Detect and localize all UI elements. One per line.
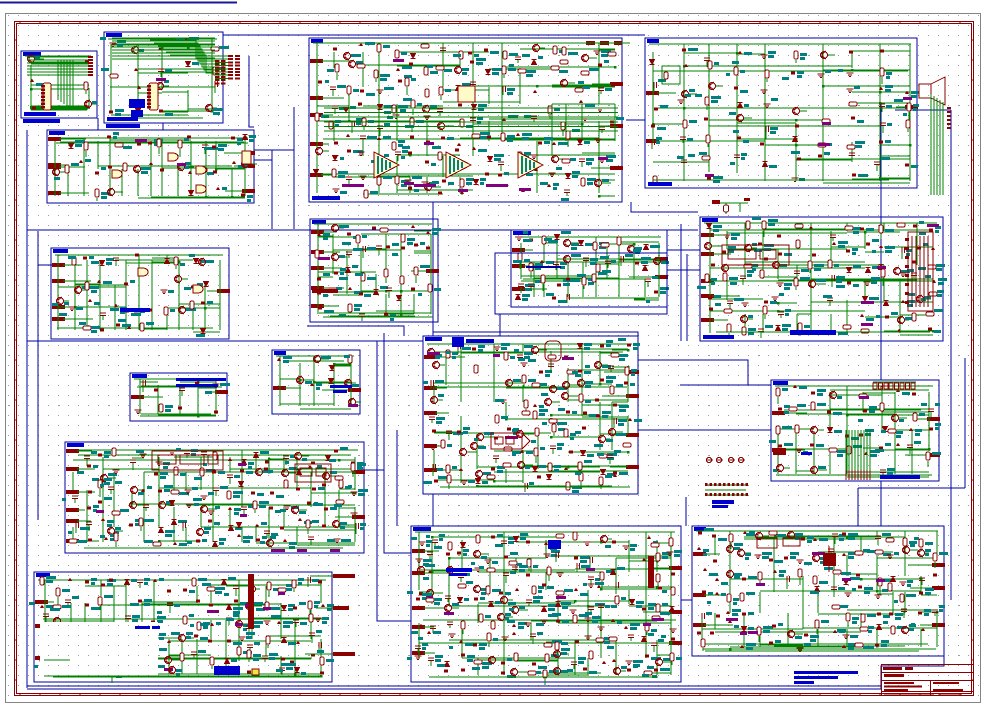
wire	[883, 279, 885, 300]
wire	[729, 304, 731, 309]
wire	[916, 249, 918, 265]
capacitor C9_20	[621, 256, 624, 262]
value ref 5_6	[154, 139, 163, 142]
port wire	[435, 356, 465, 358]
wire	[612, 404, 628, 406]
value ref 6_43	[711, 278, 717, 281]
label ref 7_26	[170, 309, 175, 312]
port P12R0	[626, 370, 639, 374]
label val 4_25	[894, 99, 903, 102]
diode D12_11	[578, 344, 583, 349]
wire	[658, 262, 660, 297]
capacitor C3_49	[503, 86, 506, 92]
pad E3_92	[441, 137, 445, 140]
label val 6_14	[919, 232, 926, 235]
value ref 3_131	[466, 178, 474, 181]
label val 10_5	[205, 391, 212, 394]
label ref 6_68	[715, 303, 721, 306]
wire	[67, 169, 69, 196]
wire	[822, 159, 824, 181]
IC U3	[458, 86, 475, 102]
wire	[520, 48, 615, 50]
resistor R5_29	[95, 189, 99, 197]
transistor Q8_2	[332, 224, 339, 232]
wire	[151, 285, 153, 330]
wire	[400, 234, 402, 274]
text B6 caption	[703, 335, 734, 339]
label val 4_54	[677, 156, 684, 159]
label ref 4_15	[825, 70, 831, 73]
label ref 3_46	[445, 89, 451, 92]
wire	[778, 331, 847, 333]
wire	[742, 279, 744, 285]
bus net 15	[895, 109, 951, 111]
top blue line	[0, 2, 237, 4]
pad E4_62	[905, 164, 909, 167]
label val 2_4	[176, 38, 185, 41]
power V+	[97, 280, 101, 284]
wire	[375, 79, 377, 82]
label ref 3_5	[401, 52, 407, 55]
port P31	[310, 96, 323, 100]
pad E3_38	[318, 81, 322, 84]
rail wire	[31, 109, 82, 111]
wire	[884, 331, 917, 333]
junction	[777, 310, 779, 312]
value ref 6_4	[768, 219, 778, 222]
label ref 9_12	[524, 259, 530, 262]
port wire	[712, 319, 728, 321]
label ref 7_27	[186, 308, 196, 311]
net net	[156, 78, 166, 81]
wire	[568, 451, 628, 453]
wire	[829, 301, 831, 306]
wire	[765, 144, 823, 146]
diode D3_101	[578, 140, 583, 145]
port P40	[646, 91, 659, 95]
wire	[551, 104, 553, 121]
capacitor C6_34	[794, 271, 800, 274]
wire	[357, 244, 359, 251]
resistor R7_34	[140, 323, 144, 331]
wire	[712, 245, 722, 247]
wire	[30, 65, 32, 88]
wire	[187, 90, 189, 112]
wire	[540, 47, 545, 49]
pad E9_28	[566, 278, 570, 281]
wire	[162, 111, 188, 113]
power V+	[188, 171, 192, 175]
ground GND	[847, 89, 854, 93]
label ref 3_21	[356, 61, 363, 64]
wire	[489, 68, 552, 70]
value ref 6_25	[885, 246, 895, 249]
pad E12_18	[539, 371, 543, 374]
resistor R3_123	[332, 169, 336, 177]
wire	[177, 169, 179, 196]
wire	[517, 60, 519, 63]
value ref 8_36	[354, 304, 362, 307]
wire	[728, 333, 730, 338]
transistor Q6_15	[705, 242, 712, 250]
wire	[83, 141, 85, 169]
label ref 6_17	[752, 243, 757, 246]
wire	[880, 177, 910, 179]
wire	[409, 177, 411, 193]
label val 3_39	[325, 80, 329, 83]
value ref 4_64	[713, 176, 723, 179]
wire	[363, 127, 365, 130]
label ref 4_51	[826, 143, 832, 146]
rail wire	[286, 360, 344, 362]
value ref 6_72	[785, 309, 791, 312]
wire	[348, 255, 350, 258]
wire	[762, 231, 764, 249]
wire	[797, 313, 811, 315]
wire	[744, 314, 746, 333]
value ref 6_45	[747, 270, 754, 273]
wire	[909, 123, 911, 142]
wire	[161, 141, 163, 196]
pad E4_7	[849, 51, 853, 54]
port P80	[311, 230, 324, 234]
capacitor C8_31	[386, 288, 392, 291]
wire	[166, 255, 168, 260]
wire	[138, 260, 140, 307]
wire	[190, 169, 192, 196]
port wire	[657, 92, 676, 94]
wire	[880, 144, 910, 146]
wire	[98, 165, 232, 167]
wire	[115, 191, 123, 193]
wire	[658, 243, 660, 262]
wire	[82, 289, 88, 291]
transistor Q2_2	[132, 46, 139, 54]
wire	[138, 46, 212, 48]
power V+	[809, 226, 813, 230]
wire	[152, 257, 179, 259]
wire	[460, 344, 462, 402]
label ref 4_66	[858, 174, 868, 177]
wire	[375, 274, 377, 294]
value ref 6_79	[748, 328, 756, 331]
wire	[316, 52, 318, 68]
value ref 3_18	[601, 50, 611, 53]
pad E9_2	[529, 239, 533, 242]
B3 outside ports	[586, 41, 622, 45]
wire	[501, 87, 503, 104]
wire	[501, 43, 503, 121]
wire	[581, 104, 583, 121]
wire	[612, 366, 628, 368]
label ref 3_58	[384, 105, 392, 108]
capacitor C6_50	[832, 275, 835, 281]
bus net 12	[432, 202, 434, 336]
capacitor C4_46	[680, 137, 686, 140]
label val 3_136	[526, 173, 533, 176]
wire	[502, 92, 504, 95]
B2 wire bundle	[112, 38, 215, 59]
wire	[522, 385, 524, 402]
label ref 3_126	[383, 176, 392, 179]
junction	[348, 120, 350, 122]
ground GND	[531, 155, 538, 159]
label ref 7_8	[200, 260, 209, 263]
bus net 30	[681, 599, 692, 601]
label val 7_30	[79, 322, 86, 325]
wire	[595, 243, 597, 279]
wire	[401, 312, 431, 314]
transistor Q12_15	[433, 361, 440, 369]
wire	[522, 450, 524, 483]
value ref 6_42	[936, 264, 945, 267]
wire	[83, 138, 85, 169]
wire	[599, 49, 615, 51]
resistor R3_131	[460, 179, 464, 187]
label ref 6_19	[784, 253, 792, 256]
wire	[216, 168, 245, 170]
wire	[190, 141, 192, 169]
wire	[473, 123, 582, 125]
bus net 7	[37, 231, 39, 520]
resistor R9_12	[518, 253, 522, 261]
label ref 4_36	[689, 120, 697, 123]
resistor R4_63	[653, 176, 657, 184]
label ref 4_48	[743, 140, 749, 143]
diode D9_6	[579, 241, 584, 246]
wire	[550, 367, 552, 373]
pad E3_54	[611, 84, 615, 87]
value ref 8_7	[407, 238, 415, 241]
label ref 3_13	[522, 54, 530, 57]
wire	[519, 262, 521, 269]
pad E10_2	[154, 389, 158, 392]
connector J2	[149, 83, 158, 110]
wire	[519, 161, 521, 168]
wire	[332, 90, 334, 96]
wire	[865, 251, 884, 253]
label ref 3_99	[558, 142, 568, 145]
port P3R0	[610, 82, 623, 86]
resistor R6_82	[798, 323, 802, 331]
wire	[362, 139, 364, 145]
wire	[777, 265, 779, 279]
wire	[92, 103, 97, 105]
port P73	[52, 317, 65, 321]
wire	[602, 364, 608, 366]
pad E7_23	[125, 310, 129, 313]
wire	[110, 139, 191, 141]
port P84	[311, 304, 324, 308]
wire	[244, 141, 246, 196]
ground GND	[772, 297, 779, 301]
wire	[599, 351, 601, 385]
label ref 9_33	[558, 300, 567, 303]
transistor Q4_38	[737, 114, 744, 122]
resistor R3_89	[392, 142, 396, 150]
wire	[823, 85, 910, 87]
pad E6_74	[885, 316, 889, 319]
resistor R8_6	[380, 228, 388, 232]
junction	[197, 415, 199, 417]
J3 wires	[215, 56, 228, 78]
label ref 3_44	[411, 78, 416, 81]
port wire	[712, 234, 729, 236]
resistor R6_53	[881, 269, 885, 277]
pad E3_1	[333, 48, 337, 51]
net net	[818, 143, 830, 146]
value ref 4_25	[911, 91, 919, 94]
pad E8_26	[317, 292, 321, 295]
wire	[653, 123, 684, 125]
value ref 9_13	[535, 263, 543, 266]
B4 top rail	[649, 43, 911, 45]
port wire	[612, 434, 626, 436]
label ref 7_34	[146, 322, 154, 325]
wire	[31, 61, 89, 63]
label ref 12_17	[528, 359, 536, 362]
label val 6_25	[872, 250, 876, 253]
diode D6_64	[884, 301, 889, 306]
wire	[599, 179, 615, 181]
label ref 3_55	[339, 107, 346, 110]
pad E6_68	[709, 308, 713, 311]
wire	[551, 121, 553, 156]
wire	[74, 260, 76, 285]
resistor R7_28	[190, 301, 194, 309]
wire	[162, 110, 212, 112]
port wire	[59, 192, 89, 194]
label val 8_16	[392, 253, 398, 256]
resistor R9_8	[601, 243, 609, 247]
wire	[851, 142, 853, 159]
label ref 3_4	[383, 45, 390, 48]
rail wire	[63, 327, 213, 329]
port wire	[234, 165, 242, 167]
transistor Q3_103	[316, 147, 323, 155]
wire	[633, 262, 635, 279]
wire	[476, 434, 478, 450]
transistor Q5_28	[242, 160, 249, 168]
B11 top rail	[276, 355, 354, 357]
wire	[54, 141, 56, 196]
label val 3_107	[371, 160, 376, 163]
wire	[568, 451, 612, 453]
right maroon pads	[947, 107, 951, 129]
pad E3_43	[398, 80, 402, 83]
pad E2_16	[159, 110, 163, 113]
capacitor C6_8	[830, 235, 836, 238]
wire	[361, 317, 363, 321]
wire	[880, 91, 910, 93]
capacitor C8_37	[359, 314, 365, 317]
value ref 4_24	[885, 85, 893, 88]
wire	[653, 88, 655, 92]
diode D5_13	[243, 135, 248, 140]
B2 logo	[129, 99, 145, 108]
bus net 9	[38, 264, 52, 266]
pad E8_15	[386, 246, 390, 249]
bus net 26	[377, 341, 384, 621]
wire	[215, 141, 217, 169]
long wire	[736, 44, 738, 173]
wire	[551, 418, 628, 420]
junction	[851, 69, 853, 71]
wire	[333, 363, 335, 382]
label ref 7_9	[206, 260, 214, 263]
wire	[582, 279, 584, 297]
wire	[764, 44, 766, 105]
wire	[279, 356, 281, 363]
wire	[115, 259, 193, 261]
block B3 boundary	[309, 38, 622, 202]
wire	[551, 121, 553, 156]
wire	[652, 89, 654, 142]
wire	[581, 104, 583, 121]
wire	[332, 234, 334, 274]
label ref 6_82	[804, 325, 810, 328]
junction	[736, 52, 738, 54]
port wire	[284, 387, 301, 389]
resistor R12_28	[532, 383, 540, 387]
pad E3_110	[425, 161, 429, 164]
capacitor C9_24	[518, 284, 524, 287]
label ref 11_8	[352, 384, 359, 387]
wire	[583, 286, 585, 289]
wire	[494, 471, 600, 473]
value ref 7_30	[91, 326, 100, 329]
resistor R6_44	[723, 273, 727, 281]
label ref 12_21	[584, 371, 591, 374]
block B5 boundary	[47, 130, 254, 203]
wire	[600, 352, 612, 354]
wire	[796, 158, 910, 160]
label ref 12_22	[602, 365, 611, 368]
label val 12_3	[446, 351, 450, 354]
label ref 3_101	[584, 141, 590, 144]
wire	[736, 89, 738, 105]
block B10 title	[132, 374, 147, 378]
wire	[313, 363, 315, 406]
wire	[522, 344, 524, 351]
transistor Q3_140	[595, 179, 602, 187]
wire	[710, 267, 865, 269]
wire	[916, 231, 918, 249]
bus net 42	[384, 620, 411, 622]
wire	[618, 279, 620, 297]
wire	[494, 480, 523, 482]
resistor R3_119	[562, 159, 570, 163]
speaker LS1	[919, 77, 945, 105]
diode D5_1	[69, 144, 74, 149]
pad E12_14	[627, 344, 631, 347]
B1 right pads	[88, 56, 93, 76]
wire	[360, 251, 362, 294]
wire	[150, 141, 152, 169]
transistor Q6_49	[809, 280, 816, 288]
wire	[533, 119, 535, 122]
wire	[832, 238, 834, 241]
wire	[795, 123, 797, 181]
diode D6_38	[866, 268, 871, 273]
wire	[865, 316, 900, 318]
label val 6_18	[754, 249, 762, 252]
wire	[764, 52, 766, 159]
label ref 11_2	[321, 356, 331, 359]
value ref 5_23	[185, 162, 191, 165]
pad E3_29	[470, 61, 474, 64]
wire	[400, 274, 402, 314]
